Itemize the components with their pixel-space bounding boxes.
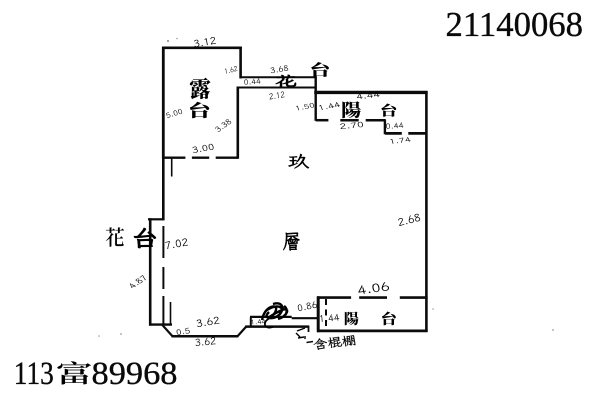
dimension 1.50	[296, 103, 314, 110]
svg-text:113: 113	[14, 356, 54, 392]
label 富 (document number)	[57, 361, 91, 384]
wall: top balcony bottom seg1	[316, 119, 329, 122]
dimension 0.44 (strip)	[244, 78, 260, 85]
wall: top balcony left edge	[315, 76, 317, 121]
dimension 1.44 (bottom balcony)	[320, 314, 339, 322]
dimension 0.86	[298, 301, 317, 311]
wire: tick below terrace bottom	[171, 158, 173, 177]
wall: chamfer diagonal left	[163, 325, 173, 336]
dimension 4.06 (bottom balcony)	[358, 282, 389, 293]
wall: bottom balcony top seg2	[359, 296, 387, 299]
wall: left wall below terrace	[162, 158, 165, 221]
label 層 (floor) kai style	[283, 233, 299, 251]
dimension 3.38	[215, 119, 231, 132]
wall: top flower-box strip upper line	[240, 76, 317, 78]
wall: recessed bottom wall	[172, 335, 239, 338]
wall: bottom balcony left edge	[317, 296, 320, 332]
handwritten note 含棍棚	[313, 335, 355, 349]
dimension 2.12	[269, 92, 284, 100]
dimension 2.68 (right wall)	[398, 214, 420, 226]
wall: top balcony lower bottom seg2	[408, 132, 427, 135]
dimension 4.44 (balcony top)	[357, 91, 380, 99]
dimension 0.44 (balcony step)	[386, 122, 403, 129]
dimension 1.44 (bottom step)	[251, 319, 265, 325]
wall: top balcony step vertical	[384, 120, 386, 134]
wire: hook below bottom wall	[308, 326, 310, 332]
wall: top balcony lower bottom seg1	[385, 132, 402, 135]
label 玖 (ninth) kai style	[288, 154, 309, 168]
wall: terrace top edge	[162, 46, 242, 49]
wall: bottom-left ledge	[149, 323, 172, 325]
wall: bottom step upper line b	[292, 317, 319, 319]
wire: dash before note	[307, 342, 314, 343]
wall: terrace right upper edge	[239, 47, 242, 79]
wall: terrace bottom seg1	[163, 156, 185, 158]
dimension 3.62 below	[196, 337, 216, 346]
label 花 (left flower box) printed	[106, 227, 124, 246]
wall: bottom step upper line a	[250, 316, 292, 318]
dimension 7.02 (left)	[165, 238, 188, 249]
wall: terrace bottom seg3	[216, 156, 238, 158]
wire: interior dashed seg2	[162, 267, 164, 289]
wall: flower-box bump top	[148, 218, 163, 220]
wall: bottom wall mid	[245, 325, 309, 328]
small loop under blob	[265, 318, 273, 328]
label 陽 (bottom balcony) printed	[345, 312, 359, 326]
dimension 5.00 (terrace left)	[166, 109, 182, 118]
dimension 1.62	[225, 66, 238, 74]
wire: bottom balcony dashed divider	[325, 299, 327, 330]
wall: bottom balcony top seg1	[317, 296, 351, 299]
dimension 1.74	[390, 137, 410, 144]
svg-text:89968: 89968	[92, 356, 178, 392]
dimension 1.44 (balcony)	[319, 102, 340, 110]
wall: bottom step vertical	[250, 317, 252, 327]
label 露 (terrace) printed	[190, 78, 211, 100]
wire: tick near bottom left	[170, 302, 172, 325]
wire: interior dashed seg1 (flower box)	[162, 226, 164, 258]
wall: unit left wall upper (below strip)	[237, 87, 240, 159]
wire / wall: terrace left edge	[162, 47, 165, 159]
label 台 (terrace) printed	[190, 102, 209, 118]
label 台 (top flower box) bold	[311, 62, 329, 77]
label 台 (top balcony) printed	[381, 104, 396, 117]
dimension 0.5 (chamfer)	[177, 328, 190, 335]
wall: terrace bottom dash2	[192, 156, 209, 158]
wall: chamfer diagonal right	[237, 326, 246, 336]
svg-text:21140068: 21140068	[446, 5, 584, 44]
handwritten 花 (top strip)	[276, 75, 296, 87]
dimension 3.12 (terrace top)	[194, 37, 216, 47]
wire: interior dashed seg3	[162, 296, 164, 325]
wall: bottom balcony top seg3	[400, 296, 428, 299]
dimension 3.62 above	[197, 317, 220, 327]
wall: top balcony bottom seg3	[366, 119, 386, 122]
small marks below bottom wall	[296, 328, 305, 339]
wall: bottom balcony bottom edge	[317, 329, 428, 332]
label 台 (bottom balcony) printed	[382, 312, 396, 326]
scan speckles	[98, 38, 554, 337]
wall: outer left wall lower	[149, 218, 152, 325]
wall: unit right wall	[425, 91, 428, 332]
scribbled-out number blob	[262, 303, 287, 320]
handwritten 台 (left flower box)	[134, 228, 156, 248]
dimension 4.87 (left wall)	[130, 275, 146, 287]
label 陽 (top balcony) printed	[342, 101, 360, 118]
wall: top balcony bottom seg2	[340, 119, 358, 122]
dimension 2.70	[340, 122, 363, 129]
wall: top balcony top wall (thick)	[314, 91, 427, 94]
dimension 3.00 (terrace bottom)	[192, 144, 213, 153]
wall: top flower-box strip lower line	[237, 87, 317, 89]
dimension 3.68 (strip top)	[271, 65, 289, 73]
